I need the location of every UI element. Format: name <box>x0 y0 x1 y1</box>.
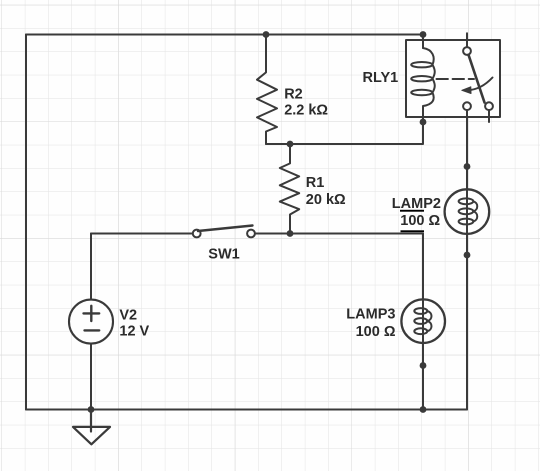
svg-text:V2: V2 <box>119 307 137 323</box>
relay RLY1 coil <box>411 35 435 123</box>
svg-text:20 kΩ: 20 kΩ <box>306 192 346 208</box>
voltage source V2: minus sign <box>85 329 100 331</box>
relay RLY1 box <box>406 40 500 117</box>
relay RLY1 switch: top pin stub <box>466 33 468 47</box>
junction dot: bottom rail / V2 <box>88 406 95 413</box>
junction dot: R1 top node <box>287 141 294 148</box>
svg-text:R2: R2 <box>284 86 303 102</box>
switch SW1: blade <box>198 226 253 232</box>
junction dot: top rail / R2 <box>263 31 270 38</box>
switch SW1: right contact circle <box>247 230 255 238</box>
wire: relay common pin down to LAMP2 <box>466 110 468 190</box>
voltage source V2: body <box>69 300 113 344</box>
relay actuation dashed link <box>437 78 475 80</box>
relay RLY1 switch: NO right pin circle <box>485 102 493 110</box>
relay RLY1 switch: right pin stub <box>488 110 490 122</box>
wire: node R2 bottom to relay coil (horizontal at y=144) <box>266 122 423 144</box>
junction dot: relay coil bottom pin <box>420 119 427 126</box>
wire: bottom rail <box>26 409 467 411</box>
svg-text:LAMP2: LAMP2 <box>392 196 441 212</box>
voltage source V2: top lead <box>90 234 92 301</box>
ground symbol <box>73 410 110 445</box>
relay RLY1 switch: blade <box>469 55 485 103</box>
switch SW1: right wire segment to LAMP3 drop <box>255 233 423 235</box>
svg-text:LAMP3: LAMP3 <box>346 306 395 322</box>
voltage source V2: bottom lead <box>90 344 92 410</box>
resistor R1 <box>280 144 299 234</box>
relay actuation arrow <box>468 78 493 91</box>
junction dot: below LAMP3 <box>420 362 427 369</box>
switch SW1: left wire segment <box>91 233 193 235</box>
svg-text:100 Ω: 100 Ω <box>400 213 440 229</box>
relay RLY1 switch: common bottom pin circle <box>463 102 471 110</box>
svg-text:SW1: SW1 <box>208 246 239 262</box>
junction dot: R1 bottom / SW1 wire <box>287 230 294 237</box>
switch SW1: left contact circle <box>193 230 201 238</box>
svg-text:2.2 kΩ: 2.2 kΩ <box>284 103 328 119</box>
svg-text:100 Ω: 100 Ω <box>356 324 396 340</box>
junction dot: relay-LAMP2 wire <box>464 163 471 170</box>
wire: right rail (LAMP2 bottom to bottom-right corner) <box>466 233 468 410</box>
voltage source V2: plus sign <box>84 306 100 321</box>
junction dot: below LAMP2 <box>464 252 471 259</box>
relay RLY1 switch: top pin circle <box>463 47 471 55</box>
resistor R2 <box>257 35 277 145</box>
junction dot: top rail / relay coil <box>420 31 427 38</box>
svg-text:RLY1: RLY1 <box>363 70 399 86</box>
wire: top rail from left corner to coil node <box>26 34 423 36</box>
svg-text:12 V: 12 V <box>119 323 149 339</box>
lamp LAMP3 <box>401 299 445 343</box>
svg-text:R1: R1 <box>306 175 325 191</box>
lamp LAMP2 <box>445 189 490 234</box>
junction dot: bottom rail / LAMP3 <box>420 406 427 413</box>
wire: LAMP3 bottom to bottom rail <box>422 343 424 410</box>
wire: LAMP3 branch drop <box>422 234 424 300</box>
wire: left rail <box>25 35 27 410</box>
